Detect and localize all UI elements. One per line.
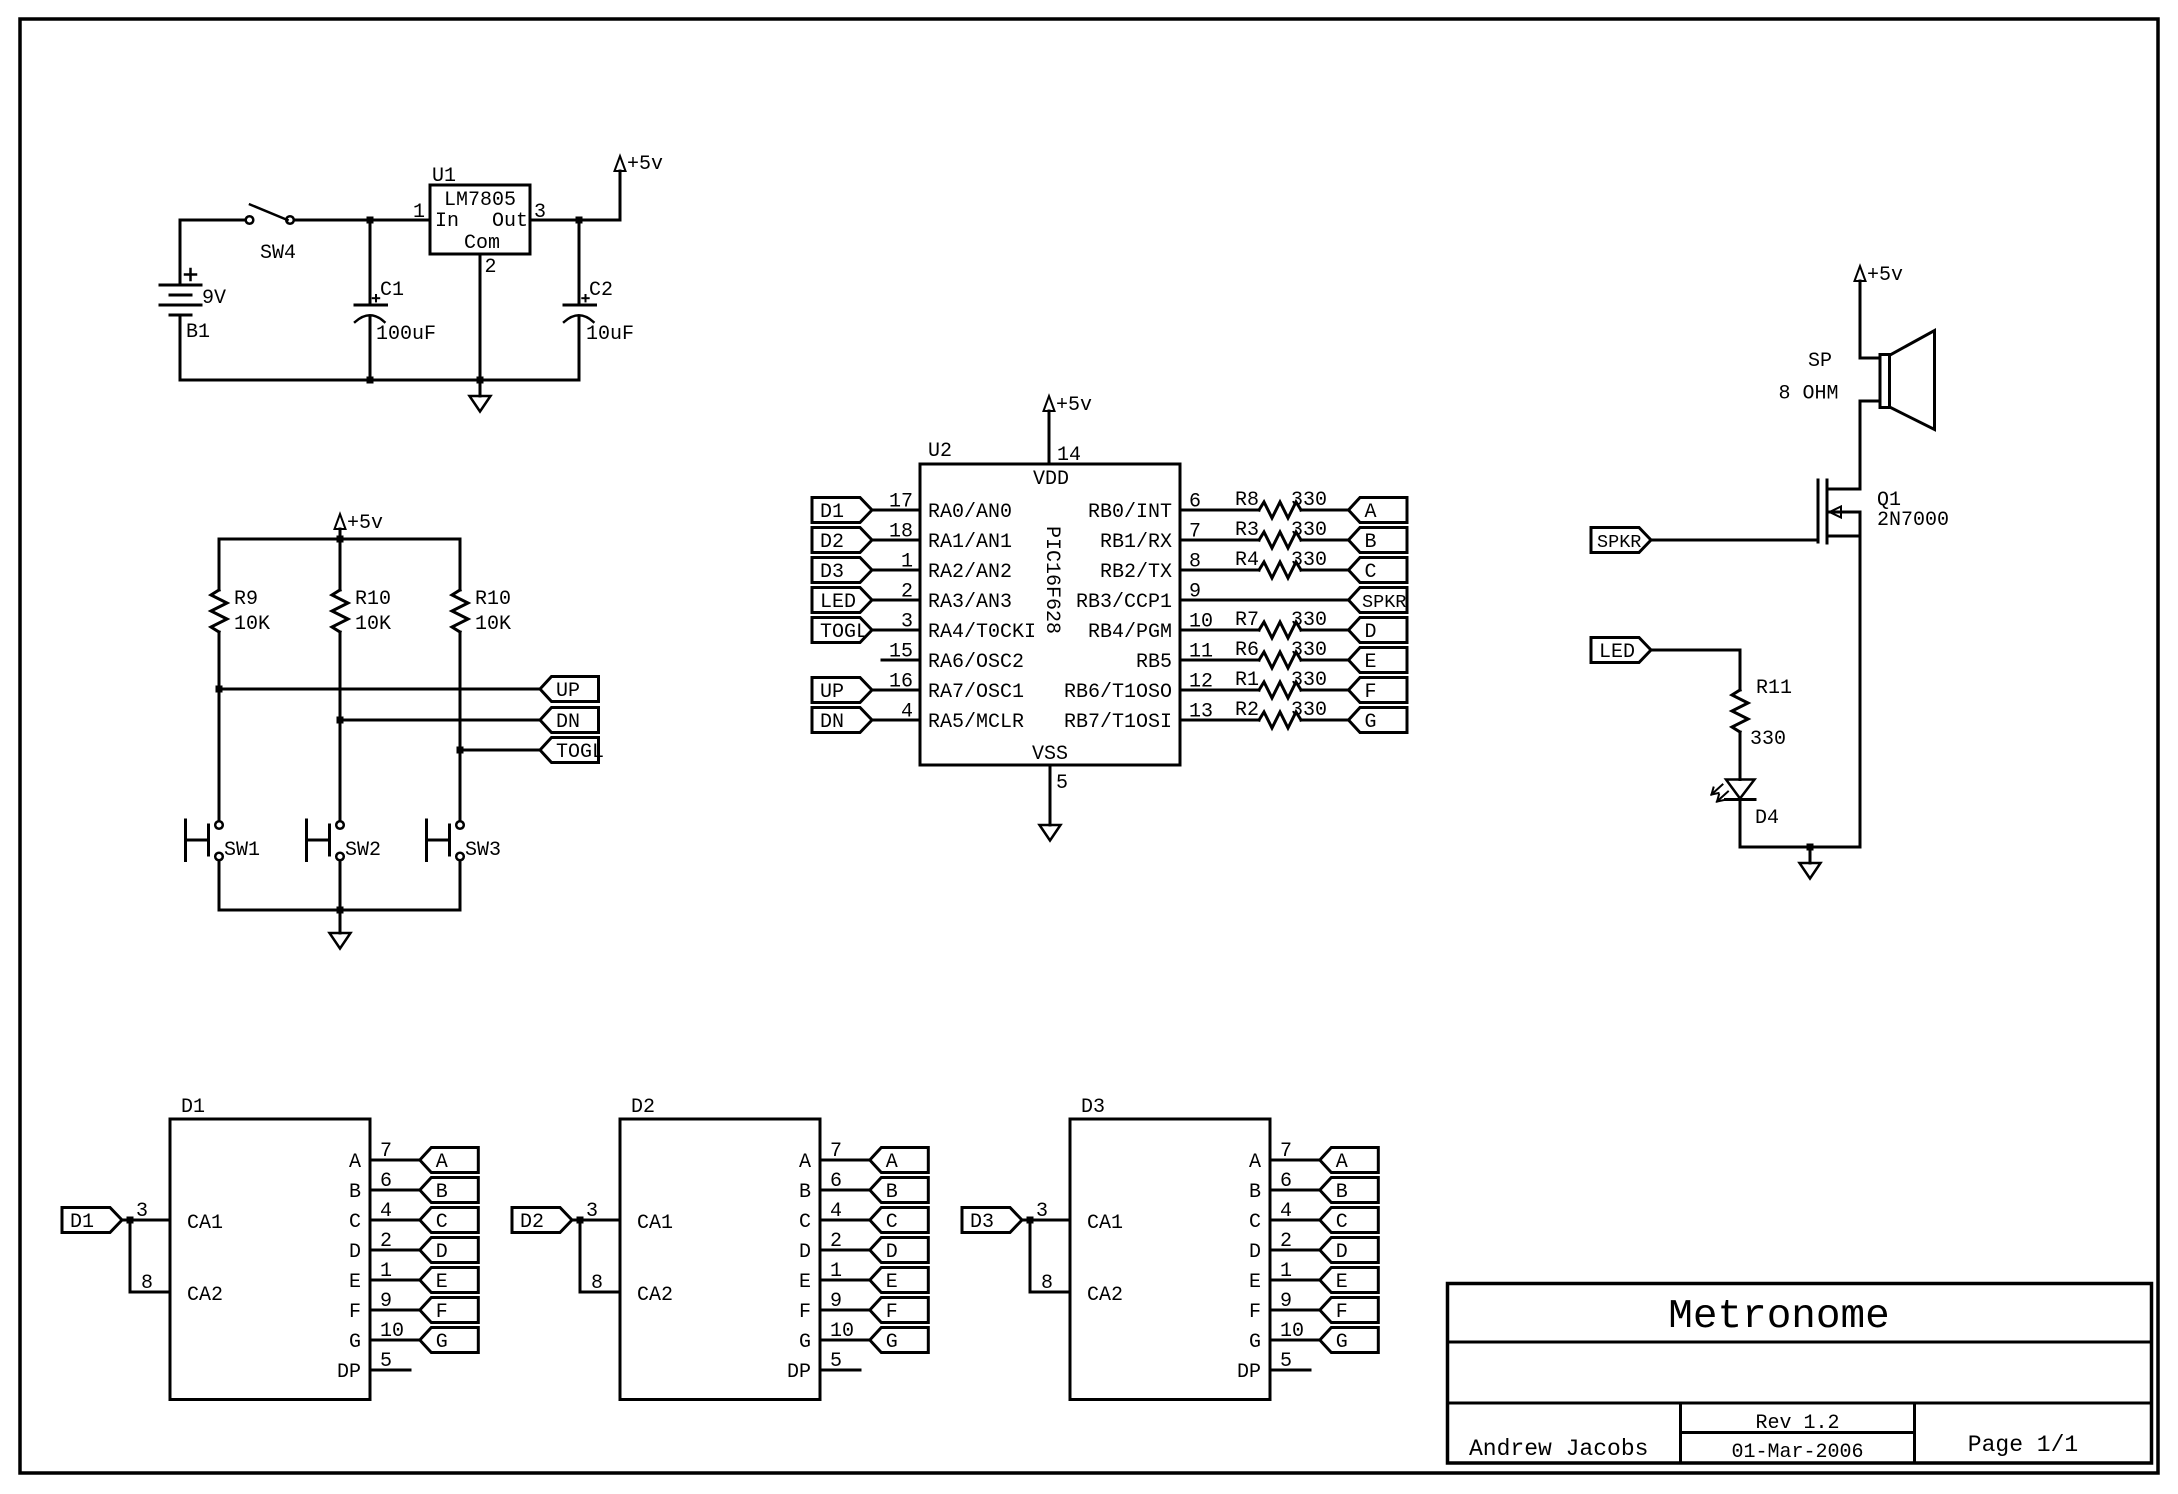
resistor R10 10K (column x=460) [459,539,462,590]
wire D2 CA1 (pin 3) [572,1219,620,1222]
wire TOGL row [460,749,540,752]
wire UP row [219,688,540,691]
net flag E (D3) [1320,1268,1379,1293]
wire D1 DP stub [370,1369,410,1372]
svg-text:D: D [1336,1241,1348,1264]
node C2 top junction [576,217,583,224]
title block frame [1448,1284,2152,1464]
wire D1 segment D [370,1249,420,1252]
svg-text:RA5/MCLR: RA5/MCLR [928,711,1024,734]
svg-text:RB4/PGM: RB4/PGM [1088,621,1172,644]
svg-text:RA2/AN2: RA2/AN2 [928,561,1012,584]
svg-text:D: D [1249,1241,1261,1264]
svg-text:Page 1/1: Page 1/1 [1968,1432,2078,1458]
svg-text:R1: R1 [1235,669,1259,692]
node LED ground junction [1807,844,1814,851]
speaker SP 8 OHM [1880,355,1890,408]
svg-text:LM7805: LM7805 [444,189,516,212]
node DN junction [337,717,344,724]
svg-text:A: A [1365,501,1377,524]
wire D3 segment A [1270,1159,1320,1162]
switch SW3 (push button) [456,821,464,829]
svg-text:F: F [886,1301,898,1324]
net flag B (segment line) [1349,528,1408,553]
svg-text:DP: DP [1237,1361,1261,1384]
net flag UP [540,677,599,702]
switch SW2 (push button) [336,821,344,829]
wire resistor R7 to flag D [1301,629,1349,632]
svg-text:C: C [1336,1211,1348,1234]
node switch rail junction [337,907,344,914]
svg-text:D2: D2 [631,1096,655,1119]
wire D3 segment D [1270,1249,1320,1252]
wire DN row [340,719,540,722]
svg-text:PIC16F628: PIC16F628 [1040,526,1063,634]
svg-text:F: F [436,1301,448,1324]
net flag B (D3) [1320,1178,1379,1203]
battery B1 [179,220,182,285]
wire D2 CA2 (pin 8) [579,1220,582,1292]
net flag F (D2) [870,1298,929,1323]
svg-text:RB3/CCP1: RB3/CCP1 [1076,591,1172,614]
net flag F (D1) [420,1298,479,1323]
svg-text:2N7000: 2N7000 [1877,509,1949,532]
net flag D2 (input) [512,1208,572,1233]
svg-text:A: A [349,1151,361,1174]
svg-text:DN: DN [820,711,844,734]
svg-text:U1: U1 [432,165,456,188]
wire D2 segment A [820,1159,870,1162]
svg-text:B: B [1365,531,1377,554]
net flag C (D2) [870,1208,929,1233]
net flag D (D3) [1320,1238,1379,1263]
net flag E (D1) [420,1268,479,1293]
resistor R6 330 [1259,652,1301,668]
svg-text:D: D [436,1241,448,1264]
wire U2 pin 11 to resistor R6 [1180,659,1259,662]
net flag SPKR (segment line) [1349,588,1408,613]
svg-text:RA4/T0CKI: RA4/T0CKI [928,621,1036,644]
net flag F (D3) [1320,1298,1379,1323]
svg-text:10K: 10K [234,613,270,636]
node TOGL junction [457,747,464,754]
svg-text:D1: D1 [820,501,844,524]
net flag DN [540,708,599,733]
svg-text:1: 1 [901,551,913,574]
transistor Q1 2N7000 [1817,480,1820,542]
svg-text:D3: D3 [1081,1096,1105,1119]
svg-text:RA7/OSC1: RA7/OSC1 [928,681,1024,704]
svg-text:01-Mar-2006: 01-Mar-2006 [1731,1441,1863,1464]
svg-text:E: E [886,1271,898,1294]
display D1 body [170,1119,370,1400]
svg-text:C: C [1249,1211,1261,1234]
svg-text:100uF: 100uF [376,323,436,346]
wire U2 pin 9 to flag SPKR [1180,599,1349,602]
ground (power supply) [479,380,482,396]
wire U2 pin 17 [872,509,920,512]
svg-text:CA1: CA1 [1087,1212,1123,1235]
svg-text:E: E [1249,1271,1261,1294]
svg-text:8 OHM: 8 OHM [1779,383,1839,406]
svg-text:C: C [886,1211,898,1234]
wire D1 segment G [370,1339,420,1342]
regulator U1 LM7805 [430,185,530,254]
svg-text:CA1: CA1 [187,1212,223,1235]
svg-text:SP: SP [1808,350,1832,373]
wire D2 segment C [820,1219,870,1222]
node D2 CA junction [577,1217,584,1224]
svg-text:B: B [349,1181,361,1204]
wire D1 CA1 (pin 3) [122,1219,170,1222]
svg-text:D2: D2 [820,531,844,554]
switch SW1 (push button) [215,821,223,829]
net flag D (D2) [870,1238,929,1263]
wire battery to SW4 [180,219,246,222]
wire R11 to D4 [1739,732,1742,780]
svg-text:8: 8 [591,1272,603,1295]
net flag D1 (U2 RA0/AN0) [812,498,872,523]
svg-text:E: E [799,1271,811,1294]
wire resistor R6 to flag E [1301,659,1349,662]
capacitor C2 10uF [578,220,581,305]
svg-text:16: 16 [889,671,913,694]
wire U2 pin 15 stub [882,659,920,662]
svg-text:CA2: CA2 [187,1284,223,1307]
svg-text:A: A [886,1151,898,1174]
wire U2 pin 8 to resistor R4 [1180,569,1259,572]
LED D4 [1726,780,1755,799]
node pullup rail junction [337,536,344,543]
wire D1 segment C [370,1219,420,1222]
ground (switch array) [339,910,342,933]
net flag A (segment line) [1349,498,1408,523]
svg-text:LED: LED [1599,641,1635,664]
svg-text:RA6/OSC2: RA6/OSC2 [928,651,1024,674]
svg-text:Metronome: Metronome [1668,1294,1889,1340]
wire U2 pin 6 to resistor R8 [1180,509,1259,512]
svg-text:A: A [1336,1151,1348,1174]
svg-text:8: 8 [1041,1272,1053,1295]
wire U2 pin 7 to resistor R3 [1180,539,1259,542]
wire U2 pin 2 [872,599,920,602]
svg-text:B: B [799,1181,811,1204]
svg-text:SPKR: SPKR [1597,532,1641,553]
svg-text:A: A [436,1151,448,1174]
wire D2 segment E [820,1279,870,1282]
wire D2 segment B [820,1189,870,1192]
wire D1 segment E [370,1279,420,1282]
wire U1 out to +5v [530,219,620,222]
svg-text:SW1: SW1 [224,839,260,862]
power +5v (U2 VDD pin 14) [1048,411,1051,464]
svg-text:R3: R3 [1235,519,1259,542]
svg-text:B: B [1336,1181,1348,1204]
svg-text:R10: R10 [355,588,391,611]
svg-text:F: F [1249,1301,1261,1324]
net flag C (D3) [1320,1208,1379,1233]
svg-text:F: F [799,1301,811,1324]
svg-text:Andrew Jacobs: Andrew Jacobs [1469,1436,1648,1462]
switch SW4 [246,216,254,224]
net flag UP (U2 RA7/OSC1) [812,678,872,703]
svg-text:RB0/INT: RB0/INT [1088,501,1172,524]
net flag D (D1) [420,1238,479,1263]
wire SW1 to ground rail [218,861,221,911]
wire LED flag to R11 [1651,649,1740,652]
resistor R7 330 [1259,622,1301,638]
svg-text:UP: UP [820,681,844,704]
IC U2 PIC16F628 body [920,464,1180,765]
svg-text:2: 2 [901,581,913,604]
display D3 body [1070,1119,1270,1400]
svg-text:G: G [1336,1331,1348,1354]
net flag E (D2) [870,1268,929,1293]
svg-text:C: C [349,1211,361,1234]
svg-text:10K: 10K [355,613,391,636]
net flag D1 (input) [62,1208,122,1233]
wire resistor R3 to flag B [1301,539,1349,542]
svg-text:Out: Out [492,210,528,233]
svg-text:D3: D3 [970,1211,994,1234]
node UP junction [216,686,223,693]
svg-text:RB5: RB5 [1136,651,1172,674]
svg-text:B: B [886,1181,898,1204]
svg-text:G: G [1249,1331,1261,1354]
wire SW3 to ground rail [459,861,462,911]
svg-text:SPKR: SPKR [1362,592,1406,613]
resistor R8 330 [1259,502,1301,518]
wire D3 CA1 (pin 3) [1022,1219,1070,1222]
net flag B (D2) [870,1178,929,1203]
svg-text:UP: UP [556,680,580,703]
net flag G (D3) [1320,1328,1379,1353]
svg-text:C: C [799,1211,811,1234]
wire +5v to speaker [1859,281,1862,358]
U2 VSS pin 5 wire [1049,765,1052,825]
svg-text:9V: 9V [202,287,226,310]
wire D3 segment F [1270,1309,1320,1312]
net flag D3 (input) [962,1208,1022,1233]
wire D2 segment G [820,1339,870,1342]
svg-text:Com: Com [464,232,500,255]
pullup top rail [219,538,460,541]
svg-text:R6: R6 [1235,639,1259,662]
resistor R2 330 [1259,712,1301,728]
wire D3 segment G [1270,1339,1320,1342]
svg-text:E: E [349,1271,361,1294]
wire SW3 column [459,750,462,821]
svg-text:3: 3 [1036,1200,1048,1223]
wire SW2 column [339,720,342,821]
svg-text:C1: C1 [380,279,404,302]
svg-text:+5v: +5v [1867,264,1903,287]
svg-text:3: 3 [901,611,913,634]
net flag G (D2) [870,1328,929,1353]
svg-text:17: 17 [889,491,913,514]
power +5v (switch pullups) [339,529,342,539]
resistor R9 10K (column x=219) [218,539,221,590]
switch ground rail [219,909,460,912]
svg-text:R9: R9 [234,588,258,611]
svg-text:B1: B1 [186,321,210,344]
svg-text:Rev 1.2: Rev 1.2 [1755,1412,1839,1435]
wire resistor R2 to flag G [1301,719,1349,722]
svg-text:B: B [1249,1181,1261,1204]
svg-text:5: 5 [1056,772,1068,795]
wire resistor R4 to flag C [1301,569,1349,572]
U1 pin 2 wire [479,254,482,380]
svg-text:10uF: 10uF [586,323,634,346]
svg-text:LED: LED [820,591,856,614]
svg-text:TOGL: TOGL [556,741,604,764]
svg-text:G: G [436,1331,448,1354]
wire D3 segment E [1270,1279,1320,1282]
svg-text:G: G [349,1331,361,1354]
node C1 top junction [367,217,374,224]
capacitor C1 100uF [369,220,372,305]
net flag LED [1591,638,1651,663]
net flag D (segment line) [1349,618,1408,643]
net flag C (segment line) [1349,558,1408,583]
svg-text:E: E [1365,651,1377,674]
wire D3 CA2 (pin 8) [1029,1220,1032,1292]
svg-text:D4: D4 [1755,807,1779,830]
ground (U2 VSS) [1040,825,1061,841]
svg-text:RB7/T1OSI: RB7/T1OSI [1064,711,1172,734]
node U1 com junction [477,377,484,384]
net flag D3 (U2 RA2/AN2) [812,558,872,583]
wire D1 segment F [370,1309,420,1312]
svg-text:RB6/T1OSO: RB6/T1OSO [1064,681,1172,704]
wire D3 DP stub [1270,1369,1310,1372]
svg-text:D: D [886,1241,898,1264]
svg-text:C: C [1365,561,1377,584]
wire U2 pin 4 [872,719,920,722]
wire Q1 source down [1859,512,1862,847]
ground (LED/Q1) [1809,847,1812,863]
svg-text:A: A [799,1151,811,1174]
svg-text:G: G [1365,711,1377,734]
wire U2 pin 16 [872,689,920,692]
wire U2 pin 13 to resistor R2 [1180,719,1259,722]
svg-text:VSS: VSS [1032,743,1068,766]
wire D1 segment B [370,1189,420,1192]
resistor R10 10K (column x=340) [339,539,342,590]
net flag TOGL [540,738,599,763]
net flag F (segment line) [1349,678,1408,703]
svg-text:+5v: +5v [627,153,663,176]
net flag G (segment line) [1349,708,1408,733]
svg-text:C2: C2 [589,279,613,302]
svg-text:DP: DP [787,1361,811,1384]
node C1 bottom junction [367,377,374,384]
wire speaker to Q1 drain [1860,400,1880,403]
svg-text:DP: DP [337,1361,361,1384]
wire D2 segment F [820,1309,870,1312]
wire D3 segment C [1270,1219,1320,1222]
svg-text:2: 2 [485,256,497,279]
node D3 CA junction [1027,1217,1034,1224]
wire D3 segment B [1270,1189,1320,1192]
svg-text:RB2/TX: RB2/TX [1100,561,1172,584]
svg-text:R10: R10 [475,588,511,611]
net flag LED (U2 RA3/AN3) [812,588,872,613]
svg-text:A: A [1249,1151,1261,1174]
wire D1 CA2 (pin 8) [129,1220,132,1292]
svg-text:D: D [349,1241,361,1264]
svg-text:+5v: +5v [347,512,383,535]
svg-text:F: F [349,1301,361,1324]
svg-text:E: E [436,1271,448,1294]
resistor R11 330 [1732,690,1748,732]
wire resistor R8 to flag A [1301,509,1349,512]
svg-text:4: 4 [901,701,913,724]
resistor R3 330 [1259,532,1301,548]
wire D1 segment A [370,1159,420,1162]
svg-text:R11: R11 [1756,677,1792,700]
svg-text:R8: R8 [1235,489,1259,512]
svg-text:D2: D2 [520,1211,544,1234]
svg-text:D1: D1 [70,1211,94,1234]
svg-text:RA1/AN1: RA1/AN1 [928,531,1012,554]
svg-text:18: 18 [889,521,913,544]
svg-text:In: In [435,210,459,233]
wire resistor R1 to flag F [1301,689,1349,692]
net flag DN (U2 RA5/MCLR) [812,708,872,733]
wire U2 pin 12 to resistor R1 [1180,689,1259,692]
svg-text:SW4: SW4 [260,242,296,265]
svg-text:SW3: SW3 [465,839,501,862]
svg-text:F: F [1336,1301,1348,1324]
svg-text:TOGL: TOGL [820,621,868,644]
power supply ground rail [180,379,579,382]
svg-text:VDD: VDD [1033,468,1069,491]
net flag SPKR (gate) [1591,528,1651,553]
net flag G (D1) [420,1328,479,1353]
node D1 CA junction [127,1217,134,1224]
power +5v (regulator output) [619,171,622,220]
svg-text:G: G [886,1331,898,1354]
svg-text:F: F [1365,681,1377,704]
svg-text:D: D [1365,621,1377,644]
wire U2 pin 1 [872,569,920,572]
net flag E (segment line) [1349,648,1408,673]
net flag C (D1) [420,1208,479,1233]
svg-text:CA1: CA1 [637,1212,673,1235]
svg-text:D3: D3 [820,561,844,584]
svg-text:10K: 10K [475,613,511,636]
svg-text:SW2: SW2 [345,839,381,862]
svg-text:R7: R7 [1235,609,1259,632]
svg-text:B: B [436,1181,448,1204]
svg-text:8: 8 [141,1272,153,1295]
net flag A (D1) [420,1148,479,1173]
svg-text:E: E [1336,1271,1348,1294]
wire D2 segment D [820,1249,870,1252]
svg-text:D: D [799,1241,811,1264]
svg-text:CA2: CA2 [637,1284,673,1307]
svg-text:RA0/AN0: RA0/AN0 [928,501,1012,524]
wire U2 pin 3 [872,629,920,632]
wire D4 to ground rail [1739,800,1742,848]
resistor R4 330 [1259,562,1301,578]
wire U2 pin 10 to resistor R7 [1180,629,1259,632]
svg-text:14: 14 [1057,444,1081,467]
wire SW4 to U1 pin 1 [294,219,430,222]
svg-text:R2: R2 [1235,699,1259,722]
wire U2 pin 18 [872,539,920,542]
